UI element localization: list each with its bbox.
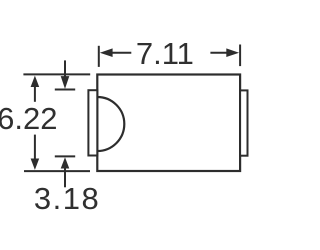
dim 3.18 lower leader line — [64, 168, 66, 188]
dim 6.22 down arrow — [31, 135, 40, 170]
svg-text:3.18: 3.18 — [34, 181, 100, 216]
dim 6.22 bottom extension line — [24, 170, 90, 172]
dim 6.22 up arrow — [31, 76, 40, 102]
dim 7.11 left arrow — [100, 48, 132, 57]
dim 3.18 lower tick — [55, 155, 75, 157]
dim 7.11 right extension line — [239, 45, 241, 67]
dim 3.18 upper tick — [55, 89, 75, 91]
svg-text:6.22: 6.22 — [0, 101, 57, 136]
dim 3.18 upper down arrow — [61, 76, 70, 89]
dim 7.11 left extension line — [98, 46, 100, 67]
package body outline — [97, 75, 240, 172]
right terminal tab — [240, 90, 247, 155]
dim 3.18 lower up arrow — [61, 157, 70, 168]
dim 6.22 top extension line — [23, 73, 90, 75]
dim 7.11 right arrow — [210, 48, 239, 57]
left terminal tab — [88, 90, 97, 155]
dim 3.18 upper leader line — [64, 60, 66, 79]
svg-text:7.11: 7.11 — [136, 36, 194, 71]
cathode-band semicircle marker — [97, 97, 124, 151]
